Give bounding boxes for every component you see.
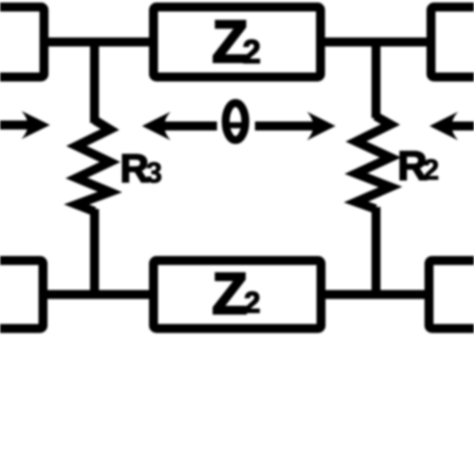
svg-text:2: 2 [244,287,260,320]
svg-text:Z: Z [212,262,247,327]
svg-text:2: 2 [423,155,439,187]
svg-text:3: 3 [146,158,162,190]
svg-text:R: R [120,147,149,191]
svg-text:2: 2 [243,33,261,70]
